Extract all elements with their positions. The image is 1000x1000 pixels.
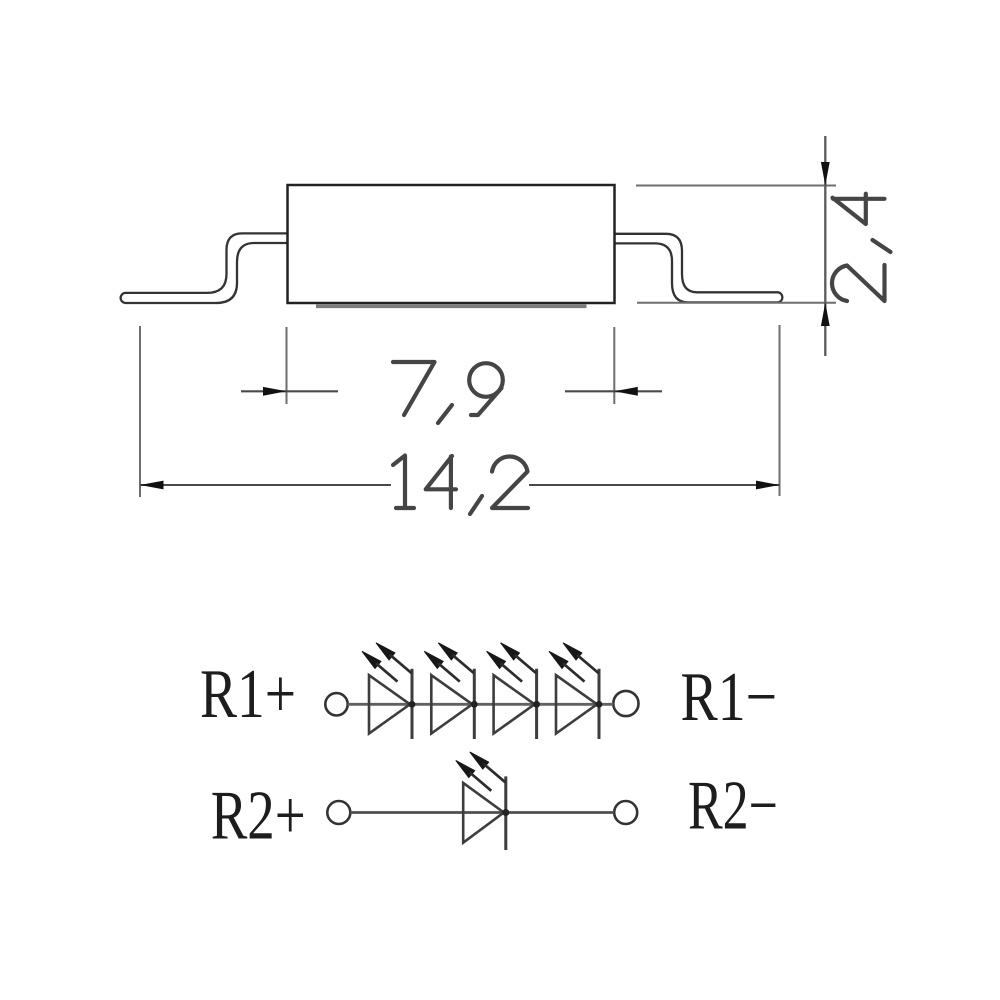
dimension 14,2 : extension line right [779, 325, 781, 496]
LED D4 [549, 643, 602, 739]
dimension 7,9 : dimension line left segment [241, 390, 338, 392]
body bottom metallization bar [316, 304, 587, 308]
dimension text 2,4 (rotated) [832, 194, 891, 301]
dimension 7,9 : dimension line right segment [565, 390, 662, 392]
LED D3 [487, 643, 540, 739]
dimension 2,4 : top arrowhead [821, 162, 830, 186]
package body [288, 185, 615, 303]
svg-text:R1+: R1+ [200, 656, 296, 733]
dimension text 7,9 [393, 362, 503, 423]
LED D1 [362, 643, 415, 739]
lead L1 (left gull-wing lead) [121, 233, 292, 303]
wire R2 row [350, 811, 614, 814]
dimension 14,2 : left arrowhead [140, 481, 164, 490]
dimension 14,2 : dimension line right segment [529, 484, 780, 486]
LED D2 [424, 643, 477, 739]
terminal circle R2+ [327, 801, 350, 824]
terminal circle R1- [613, 691, 638, 716]
dimension 14,2 : right arrowhead [756, 481, 780, 490]
LED D5 [456, 752, 510, 850]
dimension 14,2 : extension line left [139, 326, 141, 497]
terminal circle R2- [614, 801, 637, 824]
svg-text:R2+: R2+ [211, 777, 306, 854]
dimension 7,9 : left arrowhead [263, 387, 287, 396]
dimension 2,4 : bottom arrowhead [821, 303, 830, 327]
dimension text 14,2 [393, 456, 528, 515]
terminal circle R1+ [325, 693, 347, 715]
svg-text:R2−: R2− [688, 768, 778, 845]
svg-text:R1−: R1− [681, 659, 778, 736]
dimension 2,4 : vertical dimension line [824, 136, 826, 356]
dimension 7,9 : right arrowhead [614, 387, 638, 396]
dimension 7,9 : extension line right [613, 327, 615, 404]
dimension 14,2 : dimension line left segment [140, 484, 391, 486]
dimension 2,4 : bottom extension line [637, 302, 836, 304]
lead L2 (right gull-wing lead) [612, 234, 782, 303]
dimension 7,9 : extension line left [286, 327, 288, 404]
dimension 2,4 : top extension line [636, 185, 836, 187]
wire R1 row [348, 703, 614, 706]
